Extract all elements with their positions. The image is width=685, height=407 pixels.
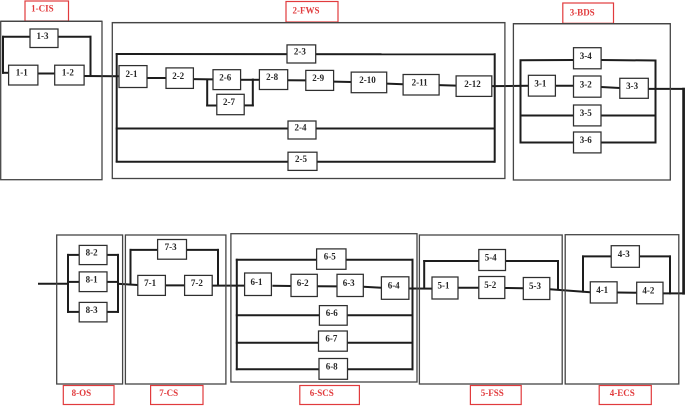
wire: 5-4 left rail bbox=[423, 260, 425, 289]
wire: 6-6 branch right bbox=[347, 314, 413, 316]
box 6-4 bbox=[381, 277, 409, 300]
box 4-2 bbox=[637, 282, 663, 304]
wire: 5-2 to 5-3 bbox=[505, 287, 524, 289]
wire: container8 right rail bbox=[117, 254, 119, 313]
container 4-ECS bbox=[565, 235, 679, 384]
svg-text:5-2: 5-2 bbox=[484, 280, 496, 290]
svg-text:3-5: 3-5 bbox=[580, 108, 592, 118]
svg-text:2-1: 2-1 bbox=[126, 69, 138, 79]
wire: 8-2 left lead bbox=[67, 254, 79, 256]
box 6-5 bbox=[317, 249, 346, 269]
wire: 3-6 branch right bbox=[601, 142, 657, 144]
svg-text:6-4: 6-4 bbox=[388, 281, 400, 291]
wire: 1-3 left lead bbox=[2, 36, 30, 38]
wire: 6-8 branch right bbox=[348, 368, 414, 370]
svg-text:1-2: 1-2 bbox=[62, 68, 74, 78]
wire: 4-3 right lead bbox=[639, 255, 671, 257]
box 2-1 bbox=[119, 66, 147, 88]
wire: container3 left rail bbox=[520, 60, 522, 144]
container1 top edge over label bbox=[1, 20, 102, 22]
wire: 6-7 branch left bbox=[236, 342, 319, 344]
wire: 5-3 to 4-1 bbox=[550, 289, 591, 292]
red label box 8-OS bbox=[63, 386, 114, 405]
wire: 6-2 to 6-3 bbox=[317, 285, 337, 287]
wire: 8-3 left lead bbox=[67, 311, 79, 313]
box 2-2 bbox=[166, 68, 193, 89]
box 3-2 bbox=[574, 76, 602, 97]
wire: 7-3 left rail bbox=[130, 249, 132, 285]
wire: 6-8 branch left bbox=[236, 368, 319, 370]
box 6-3 bbox=[337, 274, 363, 296]
wire: 7-3 left lead bbox=[130, 249, 158, 251]
box 5-4 bbox=[479, 250, 506, 271]
box 5-2 bbox=[479, 277, 505, 299]
box 2-7 bbox=[217, 94, 244, 114]
box 4-3 bbox=[611, 246, 639, 268]
wire: 2-6 out bbox=[241, 79, 254, 81]
svg-text:4-2: 4-2 bbox=[642, 286, 654, 296]
wire: 1-1 to 1-2 bbox=[38, 73, 55, 75]
svg-text:2-8: 2-8 bbox=[266, 72, 278, 82]
svg-text:2-2: 2-2 bbox=[172, 71, 184, 81]
box 6-2 bbox=[291, 274, 317, 296]
wire: 7-3 right lead bbox=[187, 249, 220, 251]
wire: 1-2 to 2-1 main bbox=[84, 75, 119, 77]
svg-text:4-ECS: 4-ECS bbox=[610, 388, 635, 398]
wire: 6-3 to 6-4 bbox=[363, 287, 381, 288]
wire: output stub bbox=[38, 283, 68, 285]
svg-text:6-7: 6-7 bbox=[325, 334, 337, 344]
svg-text:6-3: 6-3 bbox=[343, 278, 355, 288]
svg-text:2-4: 2-4 bbox=[295, 123, 307, 133]
svg-text:2-12: 2-12 bbox=[464, 79, 481, 89]
svg-text:2-6: 2-6 bbox=[219, 72, 231, 82]
svg-text:3-3: 3-3 bbox=[626, 81, 638, 91]
wire: 2-12 to 3-1 bbox=[492, 85, 529, 87]
wire: 1-3 right lead bbox=[58, 36, 92, 38]
container2 top edge over label bbox=[112, 22, 505, 24]
box 3-6 bbox=[574, 132, 602, 153]
box 3-5 bbox=[574, 105, 602, 126]
box 1-2 bbox=[55, 65, 84, 85]
box 3-1 bbox=[528, 75, 555, 96]
wire: 3-5 branch left bbox=[520, 115, 574, 117]
svg-text:2-10: 2-10 bbox=[359, 75, 376, 85]
box 3-4 bbox=[574, 48, 602, 69]
svg-text:6-8: 6-8 bbox=[326, 362, 338, 372]
red label box 4-ECS bbox=[599, 386, 651, 405]
wire: 4-3 left lead bbox=[582, 255, 611, 257]
wire: 4-3 right rail bbox=[669, 255, 671, 294]
svg-text:4-3: 4-3 bbox=[618, 249, 630, 259]
box 8-3 bbox=[79, 302, 107, 322]
wire: 3-4 branch right bbox=[601, 59, 656, 62]
wire: 2-8 to 2-9 bbox=[288, 79, 306, 81]
svg-text:1-3: 1-3 bbox=[37, 31, 49, 41]
svg-text:7-3: 7-3 bbox=[165, 242, 177, 252]
svg-text:8-1: 8-1 bbox=[86, 274, 98, 284]
svg-text:4-1: 4-1 bbox=[596, 285, 608, 295]
red label box 6-SCS bbox=[300, 386, 360, 405]
wire: 3-1 to 3-2 bbox=[555, 85, 573, 87]
box 2-8 bbox=[259, 70, 287, 90]
wire: rail8 to 7-1 bbox=[117, 284, 138, 285]
box 2-4 bbox=[288, 121, 316, 139]
svg-text:5-1: 5-1 bbox=[438, 281, 450, 291]
box 6-7 bbox=[319, 331, 348, 351]
container 5-FSS bbox=[419, 235, 562, 384]
svg-text:8-2: 8-2 bbox=[86, 248, 98, 258]
wire: container8 left rail bbox=[67, 254, 69, 313]
box 7-3 bbox=[158, 240, 187, 260]
svg-text:2-3: 2-3 bbox=[294, 47, 306, 57]
wire: to 2-7 bbox=[206, 105, 217, 107]
svg-text:2-FWS: 2-FWS bbox=[293, 6, 320, 16]
wire: wrap into 4-2 bbox=[663, 292, 685, 294]
wire: container2 right rail bbox=[494, 53, 496, 163]
wire: 6-7 branch right bbox=[347, 342, 413, 344]
svg-text:5-4: 5-4 bbox=[485, 253, 497, 263]
wire: 2-6/2-7 join rail bbox=[252, 79, 254, 107]
box 8-1 bbox=[79, 272, 107, 292]
wire: 2-11 to 2-12 bbox=[439, 84, 456, 87]
wire: 2-7 out bbox=[244, 104, 254, 106]
box 2-5 bbox=[288, 152, 317, 170]
container 2-FWS bbox=[112, 23, 505, 179]
wire: 8-1 left lead bbox=[67, 281, 79, 283]
red label box 7-CS bbox=[151, 386, 203, 405]
wire: 6-5 branch right bbox=[346, 259, 414, 261]
svg-text:7-1: 7-1 bbox=[144, 278, 156, 288]
svg-text:7-CS: 7-CS bbox=[159, 388, 178, 398]
wire: 2-5 branch line bbox=[116, 161, 495, 163]
wire: 2-6/2-7 split rail bbox=[206, 79, 208, 107]
box 2-11 bbox=[403, 75, 439, 96]
svg-text:1-CIS: 1-CIS bbox=[31, 3, 54, 13]
wire: 3-2 to 3-3 bbox=[601, 87, 620, 88]
container 3-BDS bbox=[513, 24, 670, 180]
wire: 2-4 branch line bbox=[116, 128, 495, 130]
svg-text:6-SCS: 6-SCS bbox=[310, 388, 334, 398]
wire: 5-4 right rail bbox=[557, 260, 559, 290]
svg-text:2-11: 2-11 bbox=[412, 77, 429, 87]
box 7-1 bbox=[138, 275, 166, 295]
box 2-6 bbox=[213, 70, 241, 90]
wire: wrap vertical right edge bbox=[682, 88, 685, 295]
svg-text:6-6: 6-6 bbox=[326, 308, 338, 318]
svg-text:3-2: 3-2 bbox=[580, 80, 592, 90]
container 1-CIS bbox=[1, 21, 102, 179]
box 1-3 bbox=[30, 29, 58, 48]
wire: into 1-1 bbox=[2, 72, 9, 74]
wire: container1 left rail bbox=[2, 36, 4, 74]
box 5-3 bbox=[523, 278, 550, 300]
box 6-8 bbox=[319, 359, 348, 380]
svg-text:2-9: 2-9 bbox=[312, 73, 324, 83]
box 2-12 bbox=[456, 76, 492, 97]
box 2-3 bbox=[287, 45, 316, 63]
wire: 3-4 branch left bbox=[520, 59, 574, 61]
wire: 4-1 to 4-2 bbox=[617, 292, 637, 294]
container 6-SCS bbox=[231, 234, 417, 382]
svg-text:6-1: 6-1 bbox=[251, 277, 263, 287]
svg-text:8-OS: 8-OS bbox=[72, 388, 92, 398]
wire: container3 right rail bbox=[655, 60, 657, 144]
svg-text:3-1: 3-1 bbox=[534, 78, 546, 88]
wire: 2-9 to 2-10 bbox=[334, 81, 352, 83]
svg-text:6-2: 6-2 bbox=[297, 278, 309, 288]
wire: 5-1 to 5-2 bbox=[458, 287, 479, 289]
wire: container6 left rail bbox=[236, 259, 238, 371]
wire: 8-1 right lead bbox=[107, 281, 119, 283]
svg-text:2-7: 2-7 bbox=[223, 97, 235, 107]
box 6-6 bbox=[319, 306, 347, 326]
container 7-CS bbox=[125, 235, 225, 384]
svg-text:7-2: 7-2 bbox=[191, 278, 203, 288]
wire: 4-3 left rail bbox=[582, 255, 584, 292]
box 2-10 bbox=[351, 72, 387, 93]
wire: container1 right rail bbox=[90, 36, 92, 77]
wire: 2-2 to split bbox=[193, 78, 213, 80]
wire: join to 2-8 bbox=[253, 79, 260, 81]
box 7-2 bbox=[185, 275, 213, 295]
wire: container6 right rail bbox=[412, 259, 414, 371]
box 1-1 bbox=[9, 65, 38, 85]
wire: 2-1 to 2-2 bbox=[147, 77, 166, 79]
wire: 3-3 out to wrap corner bbox=[648, 88, 684, 90]
red label box 1-CIS bbox=[25, 1, 69, 21]
wire: 2-3 branch line bbox=[116, 53, 495, 55]
red label box 3-BDS bbox=[563, 3, 614, 23]
svg-text:5-FSS: 5-FSS bbox=[481, 388, 504, 398]
wire: 7-3 right rail bbox=[217, 249, 219, 286]
box 2-9 bbox=[306, 70, 334, 90]
wire: 7-1 to 7-2 bbox=[165, 284, 184, 286]
wire: 6-1 to 6-2 bbox=[272, 285, 291, 287]
box 3-3 bbox=[620, 78, 649, 98]
svg-text:3-6: 3-6 bbox=[580, 135, 592, 145]
wire: container2 left rail bbox=[116, 53, 118, 162]
red label box 2-FWS bbox=[286, 2, 338, 23]
wire: 6-4 to 5-1 bbox=[409, 288, 432, 290]
wire: 8-2 right lead bbox=[107, 254, 119, 256]
wire: 5-4 left lead bbox=[423, 260, 479, 262]
svg-text:1-1: 1-1 bbox=[16, 68, 28, 78]
container3 top edge over label bbox=[513, 23, 670, 25]
wire: 6-5 branch left bbox=[236, 259, 317, 261]
box 4-1 bbox=[590, 282, 617, 303]
box 6-1 bbox=[245, 273, 272, 296]
wire: 5-4 right lead bbox=[506, 260, 560, 262]
wire: 6-6 branch left bbox=[236, 314, 320, 316]
wire: 7-2 to 6-1 bbox=[212, 285, 244, 287]
svg-text:8-3: 8-3 bbox=[86, 305, 98, 315]
wire: 3-5 branch right bbox=[601, 115, 657, 117]
wire: 2-10 to 2-11 bbox=[387, 83, 403, 86]
wire: 8-3 right lead bbox=[107, 311, 119, 313]
red label box 5-FSS bbox=[470, 386, 521, 405]
svg-text:3-4: 3-4 bbox=[580, 51, 592, 61]
svg-text:2-5: 2-5 bbox=[295, 154, 307, 164]
wire: 3-6 branch left bbox=[520, 142, 574, 144]
container 8-OS bbox=[57, 235, 123, 384]
svg-text:6-5: 6-5 bbox=[324, 252, 336, 262]
box 8-2 bbox=[79, 245, 107, 264]
svg-text:3-BDS: 3-BDS bbox=[570, 8, 595, 18]
svg-text:5-3: 5-3 bbox=[529, 281, 541, 291]
box 5-1 bbox=[432, 277, 458, 299]
